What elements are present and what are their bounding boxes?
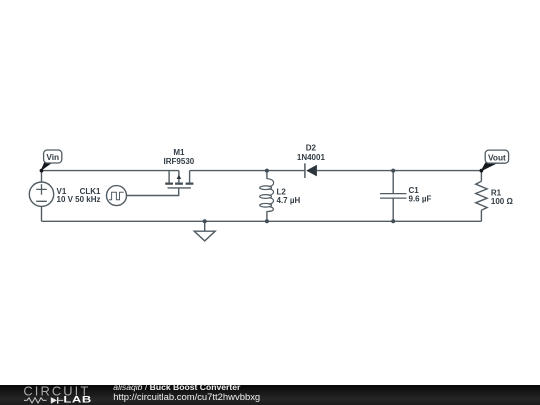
svg-text:CLK1: CLK1 [80,187,101,196]
svg-text:IRF9530: IRF9530 [164,157,195,166]
svg-text:Vout: Vout [488,153,506,163]
svg-text:LAB: LAB [63,395,92,405]
svg-text:9.6 µF: 9.6 µF [409,195,432,204]
svg-text:4.7 µH: 4.7 µH [277,196,301,205]
svg-text:10 V 50 kHz: 10 V 50 kHz [57,195,101,204]
svg-text:http://circuitlab.com/cu7tt2hw: http://circuitlab.com/cu7tt2hwvbbxg [113,392,260,403]
svg-text:alisaqib / Buck Boost Converte: alisaqib / Buck Boost Converter [113,382,241,392]
svg-text:Vin: Vin [46,152,59,162]
svg-text:100 Ω: 100 Ω [491,197,514,206]
svg-text:1N4001: 1N4001 [297,153,326,162]
svg-text:D2: D2 [306,144,317,153]
